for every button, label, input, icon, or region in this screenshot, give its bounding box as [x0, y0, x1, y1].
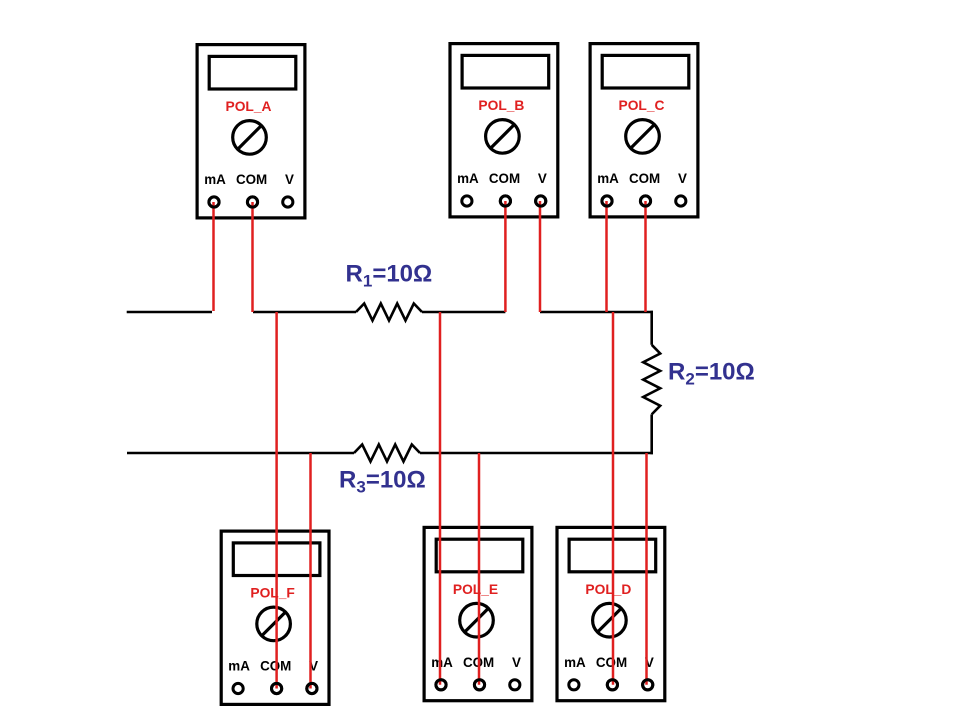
wire POL_B V lead [539, 201, 542, 312]
POL_E body [424, 527, 532, 700]
multimeter POL_C [590, 44, 698, 217]
POL_A body [197, 45, 305, 218]
terminal ring POL_B V over wire [536, 196, 546, 206]
wire POL_A COM lead [251, 202, 254, 312]
svg-text:POL_F: POL_F [250, 586, 294, 601]
POL_C rotary dial [626, 120, 660, 154]
wire bottom rail to POL_F V lead [309, 453, 312, 689]
svg-text:mA: mA [457, 171, 479, 186]
POL_D terminal V [643, 680, 653, 690]
terminal ring POL_F COM over wire [272, 683, 282, 693]
svg-text:POL_E: POL_E [453, 582, 498, 597]
wire top rail segment R1 to POL_B.COM [422, 311, 505, 314]
svg-text:mA: mA [228, 659, 250, 674]
svg-text:COM: COM [236, 172, 267, 187]
POL_B terminal V [536, 196, 546, 206]
POL_C display [602, 55, 689, 88]
POL_D terminal mA [569, 680, 579, 690]
svg-text:POL_B: POL_B [478, 98, 524, 113]
POL_F display [233, 543, 320, 576]
wire top rail segment POL_B.V to right corner [540, 311, 653, 314]
wire bottom rail right segment [420, 452, 653, 455]
terminal ring POL_C mA over wire [602, 196, 612, 206]
POL_E terminal mA [436, 680, 446, 690]
wire top rail to POL_E mA lead [439, 312, 442, 685]
svg-text:COM: COM [629, 171, 660, 186]
svg-text:V: V [285, 172, 294, 187]
POL_F terminal COM [272, 683, 282, 693]
POL_B terminal COM [500, 196, 510, 206]
svg-text:V: V [538, 171, 547, 186]
wire top rail segment POL_A.COM to R1 [253, 311, 356, 314]
terminal ring POL_E COM over wire [474, 680, 484, 690]
POL_F terminal V [307, 683, 317, 693]
wire POL_C mA lead [605, 201, 608, 312]
wire bottom rail left segment [127, 452, 354, 455]
wire right rail upper segment [650, 311, 653, 345]
POL_A display [209, 56, 296, 89]
svg-text:R3=10Ω: R3=10Ω [339, 467, 426, 497]
multimeter POL_F [221, 531, 329, 704]
svg-text:mA: mA [431, 655, 453, 670]
POL_B rotary dial [486, 120, 520, 154]
wire bottom rail to POL_E COM lead [478, 453, 481, 685]
POL_D terminal COM [607, 680, 617, 690]
wire top rail to POL_F COM lead [275, 312, 278, 689]
wire bottom rail to POL_D V lead [645, 453, 648, 685]
multimeter POL_E [424, 527, 532, 700]
POL_B terminal mA [462, 196, 472, 206]
POL_D rotary dial [593, 603, 627, 637]
svg-text:R1=10Ω: R1=10Ω [346, 261, 433, 291]
POL_C body [590, 44, 698, 217]
POL_B display [462, 55, 549, 88]
resistor R3 [354, 445, 420, 462]
wire top rail to POL_D COM lead [612, 312, 615, 685]
terminal ring POL_D V over wire [643, 680, 653, 690]
POL_A terminal mA [209, 197, 219, 207]
POL_A terminal COM [247, 197, 257, 207]
wire right rail lower segment [650, 414, 653, 454]
svg-text:POL_A: POL_A [226, 99, 272, 114]
svg-text:V: V [678, 171, 687, 186]
terminal ring POL_D COM over wire [607, 680, 617, 690]
terminal ring POL_F V over wire [307, 683, 317, 693]
POL_C terminal COM [640, 196, 650, 206]
svg-text:mA: mA [597, 171, 619, 186]
POL_D display [569, 539, 656, 572]
POL_E terminal V [510, 680, 520, 690]
multimeter POL_B [450, 44, 558, 217]
wire POL_C COM lead [644, 201, 647, 312]
POL_F body [221, 531, 329, 704]
multimeter POL_D [557, 527, 665, 700]
multimeter POL_A [197, 45, 305, 218]
wire POL_A mA lead [212, 202, 215, 311]
resistor R2 [643, 345, 660, 415]
svg-text:POL_D: POL_D [585, 582, 631, 597]
svg-text:mA: mA [204, 172, 226, 187]
terminal ring POL_A COM over wire [247, 197, 257, 207]
POL_F terminal mA [233, 683, 243, 693]
svg-text:POL_C: POL_C [619, 98, 665, 113]
terminal ring POL_A mA over wire [209, 197, 219, 207]
svg-text:COM: COM [489, 171, 520, 186]
terminal ring POL_C COM over wire [640, 196, 650, 206]
resistor R1 [356, 304, 422, 321]
wire POL_B COM lead [504, 201, 507, 312]
POL_C terminal V [676, 196, 686, 206]
terminal ring POL_E mA over wire [436, 680, 446, 690]
POL_F rotary dial [257, 607, 291, 641]
POL_E terminal COM [474, 680, 484, 690]
POL_D body [557, 527, 665, 700]
svg-text:V: V [512, 655, 521, 670]
svg-text:mA: mA [564, 655, 586, 670]
svg-text:COM: COM [596, 655, 627, 670]
terminal ring POL_B COM over wire [500, 196, 510, 206]
svg-text:R2=10Ω: R2=10Ω [668, 359, 755, 389]
POL_B body [450, 44, 558, 217]
POL_E display [436, 539, 523, 572]
POL_C terminal mA [602, 196, 612, 206]
POL_E rotary dial [460, 603, 494, 637]
wire top rail left segment [127, 311, 212, 314]
POL_A terminal V [283, 197, 293, 207]
POL_A rotary dial [233, 121, 267, 155]
